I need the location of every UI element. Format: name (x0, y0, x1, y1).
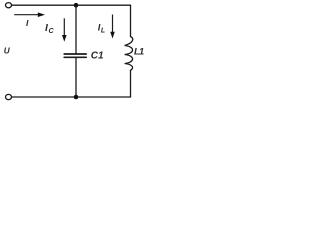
current arrow IL (110, 15, 115, 39)
wire capacitor branch lower (75, 58, 77, 97)
wire right vertical upper (130, 5, 132, 36)
terminal bottom-left (6, 94, 12, 99)
svg-text:L1: L1 (134, 47, 144, 58)
wire top horizontal (12, 4, 131, 6)
current arrow IC (62, 18, 67, 42)
node junction bottom (74, 95, 79, 100)
svg-text:U: U (4, 47, 11, 56)
svg-text:C: C (49, 26, 55, 35)
node junction top (74, 3, 79, 8)
inductor L1 coil (125, 37, 133, 71)
svg-text:L: L (101, 27, 105, 34)
wire bottom horizontal (12, 96, 131, 98)
wire capacitor branch upper (75, 5, 77, 53)
wire right vertical lower (130, 70, 132, 97)
terminal top-left (6, 3, 12, 8)
svg-text:C1: C1 (91, 51, 104, 62)
svg-text:I: I (26, 18, 29, 28)
capacitor C1 plates (64, 53, 86, 55)
current arrow I (14, 12, 45, 17)
